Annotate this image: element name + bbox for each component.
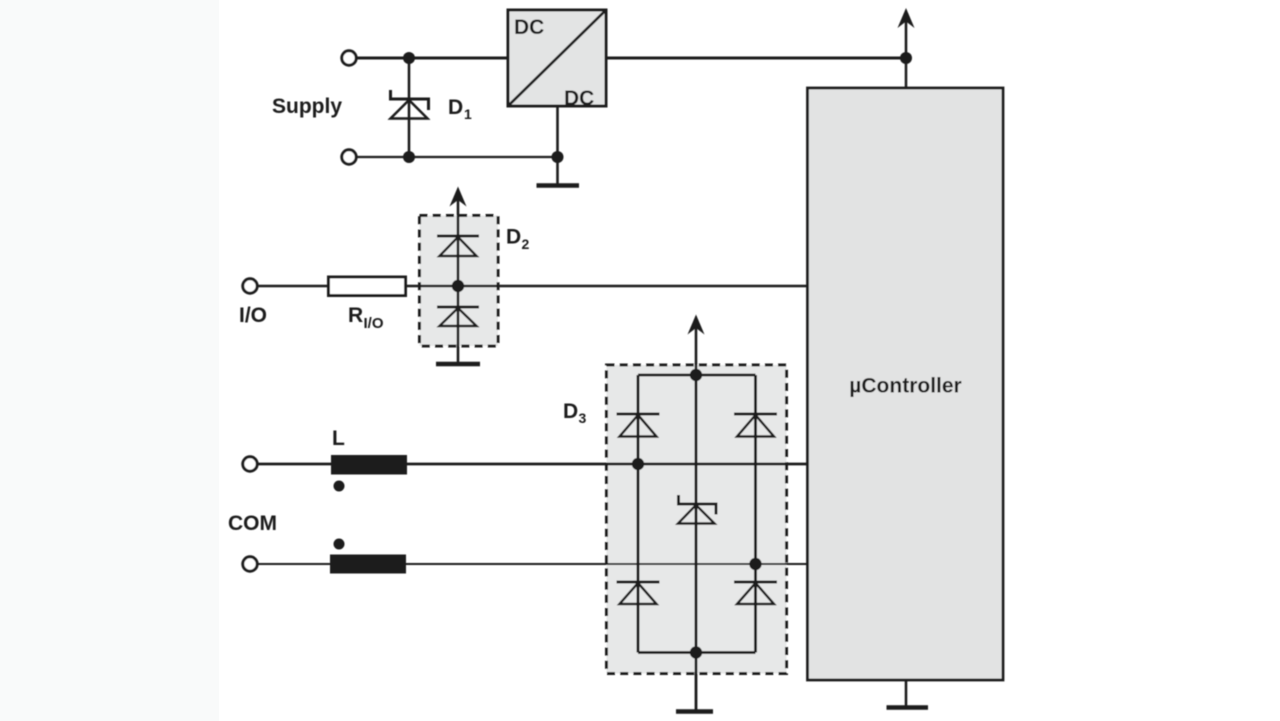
svg-text:R: R xyxy=(348,304,363,327)
ground uController xyxy=(887,705,929,710)
svg-text:D: D xyxy=(563,400,578,423)
diode D3 top-right xyxy=(734,414,777,437)
svg-text:1: 1 xyxy=(464,106,472,122)
svg-text:L: L xyxy=(332,427,345,450)
svg-text:I/O: I/O xyxy=(239,304,267,327)
diode D3 bottom-right xyxy=(734,582,777,604)
arrow power rail top xyxy=(898,8,915,58)
ground D3 xyxy=(676,709,713,714)
junction dot bridge bottom xyxy=(690,646,702,658)
svg-text:D: D xyxy=(506,226,521,249)
terminal supply - xyxy=(342,150,356,164)
inductor L bottom xyxy=(330,555,406,574)
svg-text:D: D xyxy=(448,96,463,119)
resistor R_I/O xyxy=(329,277,406,296)
wire COM line inside D3 xyxy=(607,563,787,565)
TVS array D2 xyxy=(420,187,499,365)
junction dot bridge left / L node xyxy=(632,458,644,470)
dashed box D2 xyxy=(420,216,499,347)
svg-text:µController: µController xyxy=(849,375,961,398)
wire supply bottom xyxy=(356,156,558,158)
junction dot bridge right / COM node xyxy=(749,558,761,570)
wire bridge top horizontal xyxy=(638,374,756,377)
wire bridge bottom horizontal xyxy=(638,651,756,654)
svg-text:2: 2 xyxy=(522,236,530,252)
arrow D2 top xyxy=(450,187,467,207)
svg-text:DC: DC xyxy=(514,16,544,39)
terminal supply + xyxy=(342,51,356,65)
DC/DC converter U1 xyxy=(508,10,606,110)
svg-text:3: 3 xyxy=(579,410,587,426)
wire bridge right vertical xyxy=(754,375,757,653)
junction dot I/O node xyxy=(452,280,464,292)
zener diode D3 center xyxy=(677,495,718,524)
polarity dot L bottom xyxy=(334,539,345,550)
arrow D3 top xyxy=(695,327,698,375)
wire supply top left xyxy=(356,57,508,60)
microcontroller U2 xyxy=(808,88,1004,680)
svg-text:Supply: Supply xyxy=(272,95,342,118)
junction dot supply rail xyxy=(900,52,912,64)
diode D2 upper xyxy=(437,236,479,256)
diode D3 top-left xyxy=(617,414,660,437)
svg-text:DC: DC xyxy=(564,87,594,110)
junction dot supply bottom xyxy=(403,151,415,163)
wire I/O left xyxy=(257,285,329,288)
inductor L top xyxy=(331,455,407,475)
terminal I/O xyxy=(243,279,257,293)
wire COM line xyxy=(257,563,808,565)
wire L line inside D3 xyxy=(607,463,787,466)
wire D2 vertical xyxy=(457,199,460,362)
wire L line xyxy=(257,463,808,466)
wire uController bottom stem xyxy=(905,680,908,706)
wire supply top right xyxy=(606,57,906,60)
bridge rectifier D3 xyxy=(607,315,787,712)
dashed box D3 xyxy=(607,365,787,674)
terminal COM xyxy=(243,557,257,571)
terminal L xyxy=(243,457,257,471)
wire D1 vertical xyxy=(408,58,411,157)
svg-text:COM: COM xyxy=(228,512,277,535)
junction dot bridge top xyxy=(690,369,702,381)
wire D3 bottom stem xyxy=(695,653,698,711)
svg-text:I/O: I/O xyxy=(364,315,384,332)
ground supply xyxy=(537,183,580,188)
junction dot supply top xyxy=(403,52,415,64)
diode D3 bottom-left xyxy=(617,582,660,604)
junction dot DC/DC bottom xyxy=(552,151,564,163)
diode D2 lower xyxy=(437,307,479,326)
wire bridge center vertical xyxy=(695,375,698,653)
wire stem to uController top xyxy=(905,58,908,88)
polarity dot L top xyxy=(334,481,345,492)
wire I/O inside D2 xyxy=(420,285,499,288)
wire bridge left vertical xyxy=(637,375,640,653)
wire DC/DC bottom stem xyxy=(556,106,559,184)
ground D2 xyxy=(436,362,480,367)
wire I/O right xyxy=(405,285,808,288)
zener diode D1 xyxy=(389,90,430,119)
